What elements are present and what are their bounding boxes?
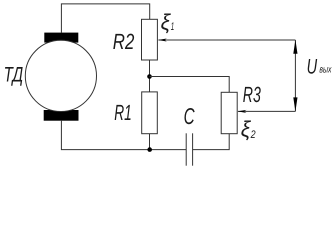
wiper line of R3 to measuring line — [238, 110, 295, 112]
resistor R3 body — [221, 92, 237, 133]
wiper line of R2 to measuring line — [159, 39, 296, 41]
brush (upper bar of tachogenerator) — [44, 33, 78, 43]
svg-text:R3: R3 — [243, 82, 261, 107]
wire: R2 bottom to R1 top — [149, 60, 151, 92]
wiper arrowhead at R3 — [237, 110, 246, 113]
svg-text:ТД: ТД — [4, 64, 24, 87]
wire: top wire from upper brush to R2 top — [61, 4, 149, 33]
brush (lower bar of tachogenerator) — [44, 110, 79, 121]
svg-text:U: U — [307, 55, 318, 78]
node junction dot on bottom rail — [147, 147, 152, 152]
resistor R1 body — [142, 92, 158, 134]
svg-text:2: 2 — [250, 129, 256, 141]
capacitor C left plate — [185, 133, 187, 165]
svg-text:вых: вых — [319, 65, 332, 76]
dimension arrowhead down — [293, 97, 297, 111]
wire: junction to R3 top — [150, 77, 230, 93]
wire: R1 bottom to bottom rail — [149, 134, 151, 150]
dimension line for U out — [294, 40, 296, 111]
svg-text:R2: R2 — [113, 29, 135, 54]
wire: lower brush down and bottom wire to capacitor left plate — [61, 121, 186, 150]
tachogenerator TD body (circle) — [25, 40, 96, 111]
node junction dot between R2 and R1 — [147, 74, 152, 79]
svg-text:R1: R1 — [114, 100, 132, 125]
dimension arrowhead up — [293, 40, 297, 54]
svg-text:ξ: ξ — [161, 10, 172, 35]
resistor R2 body — [142, 19, 158, 60]
capacitor C right plate — [192, 133, 194, 165]
svg-text:1: 1 — [171, 21, 175, 33]
svg-text:C: C — [184, 103, 195, 129]
wiper arrowhead at R2 — [158, 39, 167, 42]
wire: capacitor right plate to R3 bottom — [193, 134, 230, 150]
